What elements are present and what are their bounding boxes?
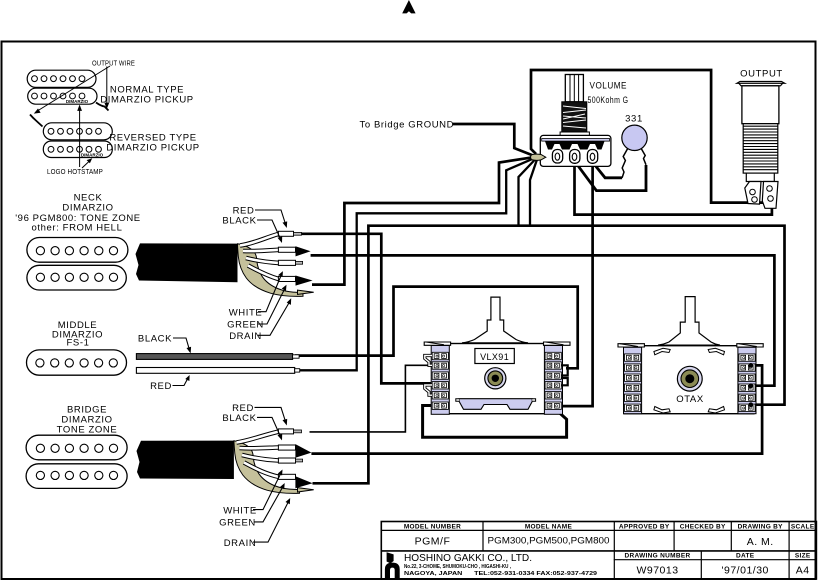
- VLX91 lever: [462, 297, 528, 343]
- svg-text:MODEL NUMBER: MODEL NUMBER: [404, 523, 461, 530]
- neck cable: [136, 243, 238, 282]
- switch VLX91: [424, 297, 570, 414]
- wire pot-case-jack: pot ground blob up over to jack sleeve: [531, 70, 766, 203]
- pot lug1: [552, 150, 562, 164]
- svg-text:DIMARZIO PICKUP: DIMARZIO PICKUP: [100, 95, 193, 106]
- arrow short to reversed stamp: [82, 161, 90, 169]
- bridge cable shield: [234, 441, 300, 494]
- svg-text:'97/01/30: '97/01/30: [722, 565, 769, 577]
- wire neck-black: neck cable BLACK bus to OTAX right lug4: [311, 255, 775, 385]
- svg-text:SIZE: SIZE: [795, 553, 811, 560]
- svg-text:A4: A4: [796, 565, 810, 577]
- svg-text:other: FROM HELL: other: FROM HELL: [32, 223, 123, 234]
- svg-text:PGM300,PGM500,PGM800: PGM300,PGM500,PGM800: [488, 536, 610, 547]
- svg-text:RED: RED: [150, 381, 172, 392]
- bridge cable: [137, 441, 234, 479]
- svg-text:DATE: DATE: [736, 553, 755, 560]
- svg-text:APPROVED BY: APPROVED BY: [619, 523, 670, 530]
- OTAX solder dot right lug2: [748, 363, 753, 368]
- neck terminal c3 (WHITE): [278, 260, 295, 265]
- jack lug left: [745, 182, 761, 205]
- middle RED conductor bar: [136, 368, 294, 374]
- wire bridge-black: bridge cable BLACK bus to OTAX right lug2: [311, 365, 762, 453]
- svg-text:BLACK: BLACK: [222, 216, 256, 227]
- OTAX corner clip top-right: [708, 348, 724, 355]
- arrow from label diagonal to reversed pickup hook: [37, 66, 111, 112]
- svg-text:CHECKED BY: CHECKED BY: [680, 523, 726, 530]
- OTAX left lugs 1-6: [625, 354, 641, 361]
- VLX91 label box: [475, 349, 514, 364]
- svg-text:DRAWING BY: DRAWING BY: [738, 523, 784, 530]
- neck wire w4: [248, 266, 279, 280]
- svg-text:331: 331: [625, 114, 643, 125]
- wire cap-left-leg: pot lug3 to capacitor 331 left lead: [594, 164, 622, 178]
- bridge wire w2: [240, 445, 279, 450]
- jack neck: [746, 173, 774, 181]
- neck pickup: [27, 238, 128, 291]
- neck terminal c1 (RED): [278, 231, 293, 236]
- OTAX solder dot right lug4: [748, 383, 753, 388]
- VLX91 left column: [431, 346, 449, 415]
- cap left lead zigzag: [622, 149, 628, 178]
- output jack: [737, 81, 785, 208]
- svg-text:A. M.: A. M.: [747, 536, 774, 548]
- VLX91 washer: [485, 368, 506, 389]
- svg-text:OUTPUT WIRE: OUTPUT WIRE: [92, 59, 135, 68]
- wire blob-riser: second ground tie above bus: [530, 160, 537, 226]
- svg-text:DRAIN: DRAIN: [229, 331, 262, 342]
- OTAX right column: [738, 347, 756, 413]
- jack lug right: [762, 182, 778, 209]
- OTAX corner clip bottom-left: [654, 407, 670, 414]
- jack threads: [743, 124, 778, 173]
- VLX91 right lugs 1-6: [545, 352, 561, 359]
- svg-text:DIMARZIO: DIMARZIO: [66, 99, 89, 104]
- svg-text:BLACK: BLACK: [222, 413, 256, 424]
- svg-text:WHITE: WHITE: [229, 307, 263, 318]
- svg-text:DIMARZIO PICKUP: DIMARZIO PICKUP: [106, 143, 199, 154]
- OTAX solder dot right lug6: [748, 402, 753, 407]
- svg-text:SCALE: SCALE: [791, 523, 815, 530]
- neck terminal c2 (BLACK) arrow: [278, 247, 295, 252]
- svg-text:DRAWING NUMBER: DRAWING NUMBER: [625, 553, 691, 560]
- svg-text:No.22, 3-CHOME, SHUMOKU-CHO ,: No.22, 3-CHOME, SHUMOKU-CHO , HIGASHI-KU…: [404, 564, 511, 570]
- wire ground-bus: bridge 4th wire / OTAX right lug6 / pot blob common ground bus: [313, 226, 785, 484]
- wire bridge-red: bridge cable RED riser to VLX91 left lug2: [310, 365, 435, 432]
- svg-text:WHITE: WHITE: [223, 505, 257, 516]
- bridge terminal c2 (BLACK) arrow: [278, 445, 295, 450]
- svg-text:FS-1: FS-1: [67, 338, 90, 349]
- pot body: [540, 135, 611, 166]
- svg-text:BLACK: BLACK: [138, 334, 172, 345]
- VLX91 jumper left lug1-lug2: [425, 356, 432, 366]
- svg-text:OUTPUT: OUTPUT: [740, 69, 783, 80]
- output wire hook of normal pickup: [96, 103, 109, 111]
- OTAX body: [624, 346, 754, 414]
- middle pickup FS-1: [27, 350, 127, 375]
- OTAX left cap: [618, 344, 644, 347]
- Hoshino Gakki logo: [385, 552, 400, 578]
- svg-text:GREEN: GREEN: [227, 320, 264, 331]
- bridge wire w1: [237, 432, 279, 443]
- junction dot jack sleeve: [769, 200, 773, 204]
- jack barrel: [742, 86, 779, 124]
- wire vlx-u: VLX91 left lug6 to right lug6 U-link: [423, 406, 567, 438]
- svg-text:HOSHINO GAKKI CO., LTD.: HOSHINO GAKKI CO., LTD.: [404, 553, 532, 564]
- OTAX left column: [624, 347, 642, 413]
- normal-type pickup illustration (top-left): [27, 70, 97, 104]
- OTAX corner clip bottom-right: [708, 407, 724, 414]
- neck terminal c4 (GREEN) arrow: [278, 276, 295, 281]
- svg-text:TONE ZONE: TONE ZONE: [57, 425, 118, 436]
- neck wire w2: [243, 250, 279, 251]
- svg-text:To Bridge GROUND: To Bridge GROUND: [360, 119, 455, 130]
- neck wire w1: [240, 234, 279, 246]
- svg-text:VLX91: VLX91: [480, 352, 509, 362]
- svg-text:LOGO HOTSTAMP: LOGO HOTSTAMP: [47, 167, 103, 176]
- junction diag ground-bus to blob: [519, 159, 537, 226]
- neck terminal c5 (DRAIN): [298, 290, 314, 294]
- cap right lead zigzag: [641, 149, 646, 165]
- VLX91 jumper right lug3-lug4: [561, 378, 568, 385]
- svg-text:MODEL NAME: MODEL NAME: [525, 523, 573, 530]
- title block: [381, 522, 816, 580]
- bridge terminal c1 (RED): [278, 429, 293, 434]
- wire neck-ground: neck cable 4th wire to pot ground blob: [312, 157, 536, 285]
- bridge wire w3: [242, 455, 279, 461]
- svg-text:DRAIN: DRAIN: [224, 538, 257, 549]
- VLX91 bottom tray: [459, 399, 532, 410]
- bridge terminal c3 (WHITE): [278, 458, 295, 463]
- OTAX corner clip top-left: [654, 348, 670, 355]
- svg-text:OTAX: OTAX: [676, 394, 704, 405]
- pot lug2: [570, 150, 580, 164]
- wire potlug3-vlx: pot lug3 down to VLX91 right lug6: [557, 164, 593, 406]
- pot collar: [560, 132, 589, 136]
- svg-text:PGM/F: PGM/F: [415, 536, 451, 548]
- svg-text:W97013: W97013: [636, 565, 678, 577]
- pot shaft: [565, 75, 583, 102]
- pot lug3: [587, 150, 597, 164]
- VLX91 body: [432, 344, 561, 414]
- reversed-type pickup illustration: [43, 123, 112, 158]
- top orientation triangle: [402, 0, 415, 13]
- svg-text:VOLUME: VOLUME: [590, 81, 628, 92]
- bridge terminal c5 (DRAIN): [298, 488, 314, 492]
- svg-text:500Kohm G: 500Kohm G: [588, 95, 629, 106]
- pot knurled bushing: [562, 102, 587, 132]
- arrow vertical logo hotstamp to DIMARZIO stamp: [79, 108, 81, 167]
- arrow from label to normal pickup hook: [106, 67, 108, 106]
- wire potlug2-jack: pot lug2 to output jack tip: [575, 164, 772, 215]
- OTAX lever: [658, 297, 720, 346]
- OTAX washer: [677, 366, 702, 391]
- wire mid-red-ground: middle pickup RED to pot ground blob: [295, 157, 537, 370]
- svg-text:GREEN: GREEN: [219, 518, 256, 529]
- neck cable shield: [238, 244, 304, 297]
- pot wafer silhouette: [545, 141, 605, 149]
- wire cap-right-leg: pot lug2 to capacitor 331 right lead: [576, 163, 646, 190]
- VLX91 left lugs 1-6: [432, 352, 448, 359]
- wire neck-red: neck cable RED to VLX91 left lug4: [302, 234, 433, 384]
- wire to-bridge-ground: label lead to pot ground blob: [453, 124, 535, 156]
- neck wire w3: [246, 258, 279, 263]
- VLX91 right cap: [544, 342, 571, 345]
- VLX91 right column: [544, 346, 562, 415]
- pot ground solder blob: [531, 154, 546, 160]
- VLX91 jumper right lug2-lug3: [561, 365, 568, 375]
- VLX91 jumper left lug4-lug5: [425, 385, 432, 395]
- jack flange: [737, 81, 785, 83]
- potentiometer VOLUME 500K: [531, 75, 611, 167]
- OTAX right lugs 1-6: [739, 354, 755, 361]
- VLX91 left cap: [424, 342, 450, 345]
- OTAX right cap: [737, 344, 763, 347]
- bridge pickup: [26, 435, 127, 488]
- middle BLACK conductor bar: [136, 354, 292, 360]
- svg-text:NAGOYA, JAPAN TEL:052-931: NAGOYA, JAPAN TEL:052-931-0334 FAX:052-9…: [404, 571, 597, 577]
- switch OTAX: [618, 297, 763, 414]
- svg-text:DIMARZIO: DIMARZIO: [81, 153, 104, 158]
- wire mid-black: middle pickup BLACK to VLX91 right lug2/3 jumper: [295, 287, 578, 369]
- bridge terminal c4 (GREEN) arrow: [278, 474, 295, 479]
- bridge wire w4: [244, 463, 279, 477]
- reversed pickup output hook: [30, 115, 43, 127]
